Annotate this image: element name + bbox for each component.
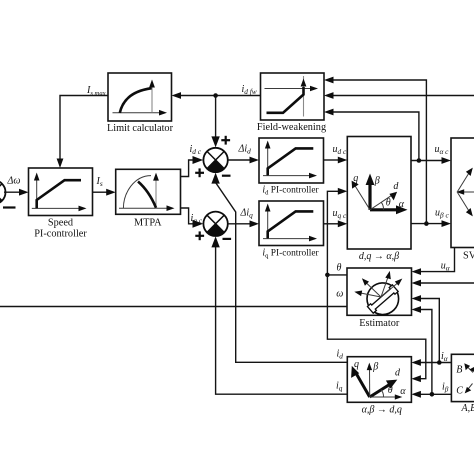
wire u_dc to dq block	[324, 159, 340, 161]
wire I_smax limit calc to Speed PI top	[60, 96, 108, 161]
svg-text:θ: θ	[386, 197, 391, 208]
beta axis thick	[368, 184, 371, 210]
block i_q PI-controller	[259, 201, 324, 259]
wire u_alpha_c dq to SVM	[411, 160, 443, 162]
wire dc-link input to field-weakening middle (from right edge)	[332, 95, 474, 97]
wire fw output to limit calculator	[180, 95, 261, 97]
svg-text:θ: θ	[337, 263, 342, 274]
block alpha,beta->d,q transform	[347, 357, 411, 416]
svg-text:B: B	[456, 365, 462, 376]
summing junction S1 (i_d)	[195, 136, 230, 177]
q axis thin	[355, 185, 370, 210]
wire u_alpha from SVM bottom to estimator	[420, 248, 455, 272]
wire theta down branch to alpha-beta block	[327, 275, 425, 379]
svg-text:id PI-controller: id PI-controller	[262, 185, 319, 197]
wire i_alpha branch to estimator	[420, 299, 440, 363]
rotor bar icon	[367, 285, 398, 313]
block A,B,C->alpha,beta (cut off)	[451, 354, 474, 414]
svg-text:Speed: Speed	[48, 218, 74, 229]
wire S1 out di_d to i_d PI	[228, 159, 251, 161]
svg-text:C: C	[456, 385, 463, 396]
svg-text:α: α	[400, 386, 406, 397]
wire MTPA out i_qc to S2	[181, 208, 197, 224]
block Estimator	[347, 268, 412, 329]
wire omega out of estimator to left edge	[0, 306, 347, 308]
wire u_beta from right edge to estimator	[420, 282, 474, 284]
block Speed PI-controller	[29, 168, 93, 240]
svg-text:Δω: Δω	[7, 175, 21, 186]
junction dot on fw line	[213, 93, 218, 98]
block Field-weakening	[257, 73, 326, 133]
wire u_alpha_c feedback up to field-weakening bottom input	[332, 112, 419, 161]
wire d-omega input to Speed PI	[4, 191, 21, 193]
svg-text:d,q → α,β: d,q → α,β	[359, 251, 399, 262]
svg-text:q: q	[354, 359, 359, 370]
wire u_qc to dq block	[324, 223, 340, 225]
alpha axis thick	[370, 208, 399, 211]
d axis thick	[370, 383, 392, 397]
svg-text:α: α	[399, 199, 405, 210]
alpha axis thin	[370, 396, 398, 398]
wire I_s Speed PI to MTPA	[93, 191, 109, 193]
svg-text:ω: ω	[336, 288, 343, 299]
wire i_alpha from ABC block	[419, 362, 451, 364]
wire i_d feedback to S1	[216, 179, 348, 362]
wire u_beta_c feedback up to field-weakening top input	[332, 80, 426, 224]
wire theta up into dq block	[327, 191, 339, 275]
q axis thick	[356, 372, 370, 397]
block Limit calculator	[107, 73, 174, 134]
wire theta out of estimator	[327, 274, 347, 276]
summing junction S2 (i_q)	[195, 212, 231, 241]
wire fw line down to S1 top	[215, 96, 217, 139]
svg-text:Limit calculator: Limit calculator	[107, 123, 174, 134]
wire u_beta_c dq to SVM	[411, 223, 443, 225]
svg-text:iq PI-controller: iq PI-controller	[262, 247, 319, 259]
svg-text:β: β	[372, 362, 378, 373]
theta arc	[381, 390, 384, 397]
svg-text:q: q	[353, 173, 358, 184]
svg-text:Estimator: Estimator	[359, 318, 400, 329]
svg-text:A,B,C: A,B,C	[461, 403, 474, 414]
beta axis thin	[369, 368, 371, 397]
svg-text:MTPA: MTPA	[134, 218, 162, 229]
svg-text:PI-controller: PI-controller	[34, 229, 87, 240]
svg-text:SVM: SVM	[463, 251, 474, 262]
wire i_beta branch to estimator	[420, 310, 432, 395]
svg-text:β: β	[374, 176, 380, 187]
radiating arrows	[358, 293, 381, 298]
wire i_q feedback to S2	[216, 243, 348, 394]
block MTPA	[116, 169, 181, 228]
theta arc	[381, 202, 384, 210]
block d,q->alpha,beta transform	[347, 137, 411, 262]
svg-text:Field-weakening: Field-weakening	[257, 122, 326, 133]
summing junction S0 (speed error, cut at left edge)	[0, 180, 16, 207]
d axis thin	[370, 195, 393, 210]
wire S2 out di_q to i_q PI	[228, 223, 251, 225]
wire i_beta from ABC block	[419, 393, 451, 395]
svg-text:α,β → d,q: α,β → d,q	[362, 404, 402, 415]
block SVM (cut off at right edge)	[451, 138, 474, 262]
svg-text:θ: θ	[388, 385, 393, 396]
block i_d PI-controller	[259, 138, 324, 197]
wire MTPA out i_dc to S1	[181, 160, 197, 177]
